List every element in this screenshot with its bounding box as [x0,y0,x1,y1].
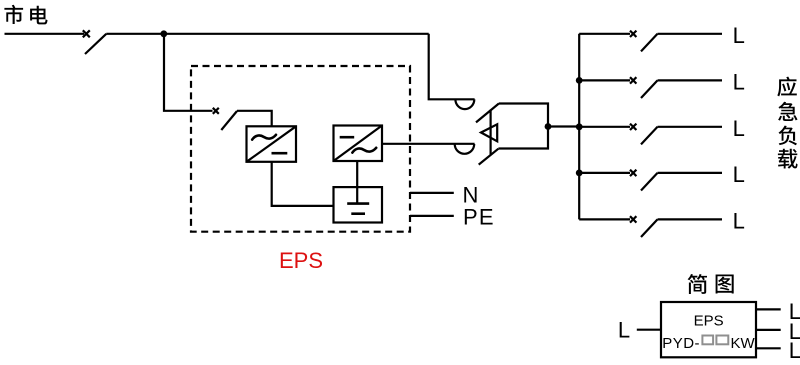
svg-text:KW: KW [731,335,756,352]
svg-text:L: L [733,162,745,187]
branch 2 blade [641,80,658,98]
branch 4 fixed contact x [630,170,636,176]
svg-text:L: L [733,209,745,234]
simplified EPS box [661,302,756,357]
wire ATS output to bus [548,125,579,127]
simplified output stub 2 [757,329,781,331]
simplified output stub 3 [757,347,781,349]
wire inverter to battery box [356,161,358,187]
branch 1 fixed contact x [630,31,636,37]
contactor KM2 contact arc (inverter path) [455,144,475,154]
battery long plate [347,202,369,205]
branch 3 wire to load [658,126,723,128]
svg-text:N: N [463,182,479,207]
branch 3 blade [641,127,658,145]
PE terminal wire [410,215,454,217]
svg-text:PE: PE [463,205,495,230]
model number square 2 [716,336,728,345]
wire ATS top feed (down and right) [429,34,475,100]
branch 4 blade [641,173,658,191]
rectifier diagonal [247,126,297,162]
inverter U2 box [334,126,383,162]
branch 5 wire to load [658,218,723,220]
inverter DC bar [340,136,355,139]
bus junction dot (input) [576,123,583,130]
rectifier DC bar [272,152,288,155]
N terminal wire [410,192,454,194]
svg-text:L: L [789,338,800,363]
branch 1 wire from bus [579,33,630,35]
branch 4 wire to load [658,172,723,174]
svg-text:EPS: EPS [694,312,724,329]
wire switch to rectifier input [237,111,272,127]
branch 5 blade [641,219,658,237]
switch QS0 fixed contact x [83,30,90,37]
battery short plate [351,212,365,215]
bus junction dot branch 4 [576,170,583,177]
wire junction down into EPS cabinet [164,34,213,111]
wire mains bus to ATS feed [106,33,428,35]
rectifier U1 box [247,126,297,162]
wire mains input segment [5,33,85,35]
ATS frame [498,104,548,149]
model number square 1 [702,336,713,345]
wire rectifier to battery [272,162,334,206]
bus junction dot branch 2 [576,77,583,84]
label 简图 second char [716,275,734,294]
branch 5 fixed contact x [630,216,636,222]
branch 1 wire to load [658,33,723,35]
switch QS0 blade [85,34,106,54]
battery GB box [334,187,383,222]
simplified output stub 1 [757,308,781,310]
junction node dot (mains tap) [160,30,167,37]
svg-text:EPS: EPS [279,248,323,273]
ATS bottom blade [479,149,499,165]
label 应急负载 (emergency load, vertical) [777,77,797,169]
ATS interlock triangle [481,124,497,141]
branch 4 wire from bus [579,172,630,174]
branch 2 wire to load [658,79,723,81]
inverter diagonal [334,126,383,162]
ATS top blade [476,103,499,122]
inverter AC tilde [352,148,376,153]
branch 2 fixed contact x [630,77,636,83]
svg-text:L: L [733,23,745,48]
branch 5 wire from bus [579,218,630,220]
svg-text:L: L [733,70,745,95]
branch 3 fixed contact x [630,124,636,130]
svg-text:L: L [733,116,745,141]
internal switch fixed contact x [213,108,219,114]
svg-text:L: L [618,318,630,343]
branch 2 wire from bus [579,79,630,81]
label 市电 second char [30,6,47,25]
ATS output node dot [545,123,552,130]
wire inverter output to contactor [382,143,475,145]
dashed enclosure EPS cabinet [191,66,410,232]
branch 3 wire from bus [579,126,630,128]
distribution bus [578,34,580,220]
svg-text:PYD-: PYD- [662,335,700,352]
contactor KM1 contact arc (mains path) [455,99,474,109]
label 简图 (simplified diagram) [688,274,707,294]
internal switch blade [221,111,237,130]
battery lead [356,187,358,203]
ATS linkage bar [490,110,492,155]
rectifier AC tilde [252,135,276,140]
label 市电 (mains supply) [4,5,23,24]
branch 1 blade [641,34,658,52]
simplified input wire [637,329,661,331]
